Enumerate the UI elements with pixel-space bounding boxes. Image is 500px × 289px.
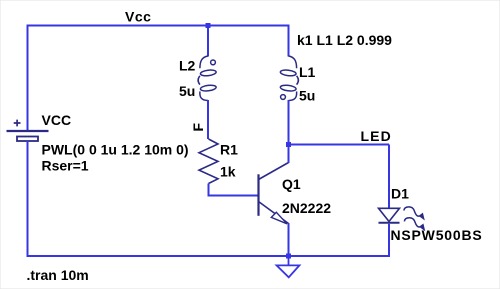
LED light arrow upper: [404, 207, 424, 219]
value label 5u (L2): [179, 83, 195, 99]
svg-text:VCC: VCC: [42, 112, 72, 128]
junction dot ground node: [286, 254, 291, 259]
inductor L1: [280, 56, 298, 101]
svg-text:5u: 5u: [299, 88, 315, 104]
svg-text:.tran 10m: .tran 10m: [27, 267, 89, 283]
svg-text:R1: R1: [220, 142, 238, 158]
wire bottom rail: [27, 255, 390, 257]
value label PWL: [42, 142, 189, 158]
wire emitter lead: [288, 223, 290, 256]
node F label (rotated): [190, 123, 206, 132]
svg-text:Rser=1: Rser=1: [42, 158, 89, 174]
svg-text:2N2222: 2N2222: [282, 200, 331, 216]
wire battery top lead: [27, 25, 29, 132]
value label 5u (L1): [299, 88, 315, 104]
wire top rail Vcc: [28, 25, 290, 27]
label VCC (source name): [42, 112, 72, 128]
transistor Q1: [259, 163, 289, 224]
svg-text:F: F: [190, 123, 206, 132]
svg-text:NSPW500BS: NSPW500BS: [391, 227, 483, 243]
svg-text:1k: 1k: [220, 164, 236, 180]
wire LED cathode lead: [388, 224, 390, 257]
label L1: [299, 64, 316, 80]
wire R1 bottom to base: [209, 184, 258, 196]
wire L2 to R1: [207, 100, 209, 139]
label L2: [179, 58, 196, 74]
junction dot collector node: [286, 142, 291, 147]
wire L1 top lead: [288, 25, 290, 57]
value label NSPW500BS: [391, 227, 483, 243]
svg-text:Q1: Q1: [282, 176, 301, 192]
svg-text:k1 L1 L2 0.999: k1 L1 L2 0.999: [297, 32, 392, 48]
label D1: [391, 186, 409, 202]
svg-text:LED: LED: [361, 128, 392, 144]
voltage source V1 VCC (battery symbol): [7, 120, 49, 141]
wire collector lead: [288, 145, 290, 164]
directive .tran: [27, 267, 89, 283]
diode D1 LED: [379, 208, 400, 223]
resistor R1: [199, 139, 218, 184]
svg-text:L1: L1: [299, 64, 316, 80]
wire battery bottom lead: [27, 141, 29, 257]
inductor L2: [198, 56, 216, 101]
label Q1: [282, 176, 301, 192]
coupling statement k1: [297, 32, 392, 48]
value label Rser: [42, 158, 89, 174]
wire L2 top lead: [207, 25, 209, 57]
node Vcc label: [125, 9, 151, 25]
svg-text:5u: 5u: [179, 83, 195, 99]
ground: [277, 256, 300, 277]
svg-text:D1: D1: [391, 186, 409, 202]
svg-text:L2: L2: [179, 58, 196, 74]
wire collector node to LED: [289, 145, 390, 209]
junction dot top rail / L2: [206, 23, 211, 28]
svg-text:Vcc: Vcc: [125, 9, 151, 25]
label R1: [220, 142, 238, 158]
value label 2N2222: [282, 200, 331, 216]
svg-text:PWL(0 0 1u 1.2 10m 0): PWL(0 0 1u 1.2 10m 0): [42, 142, 189, 158]
node LED label: [361, 128, 392, 144]
LED light arrow lower: [404, 218, 424, 230]
value label 1k: [220, 164, 236, 180]
wire L1 bottom to collector node: [288, 100, 290, 145]
